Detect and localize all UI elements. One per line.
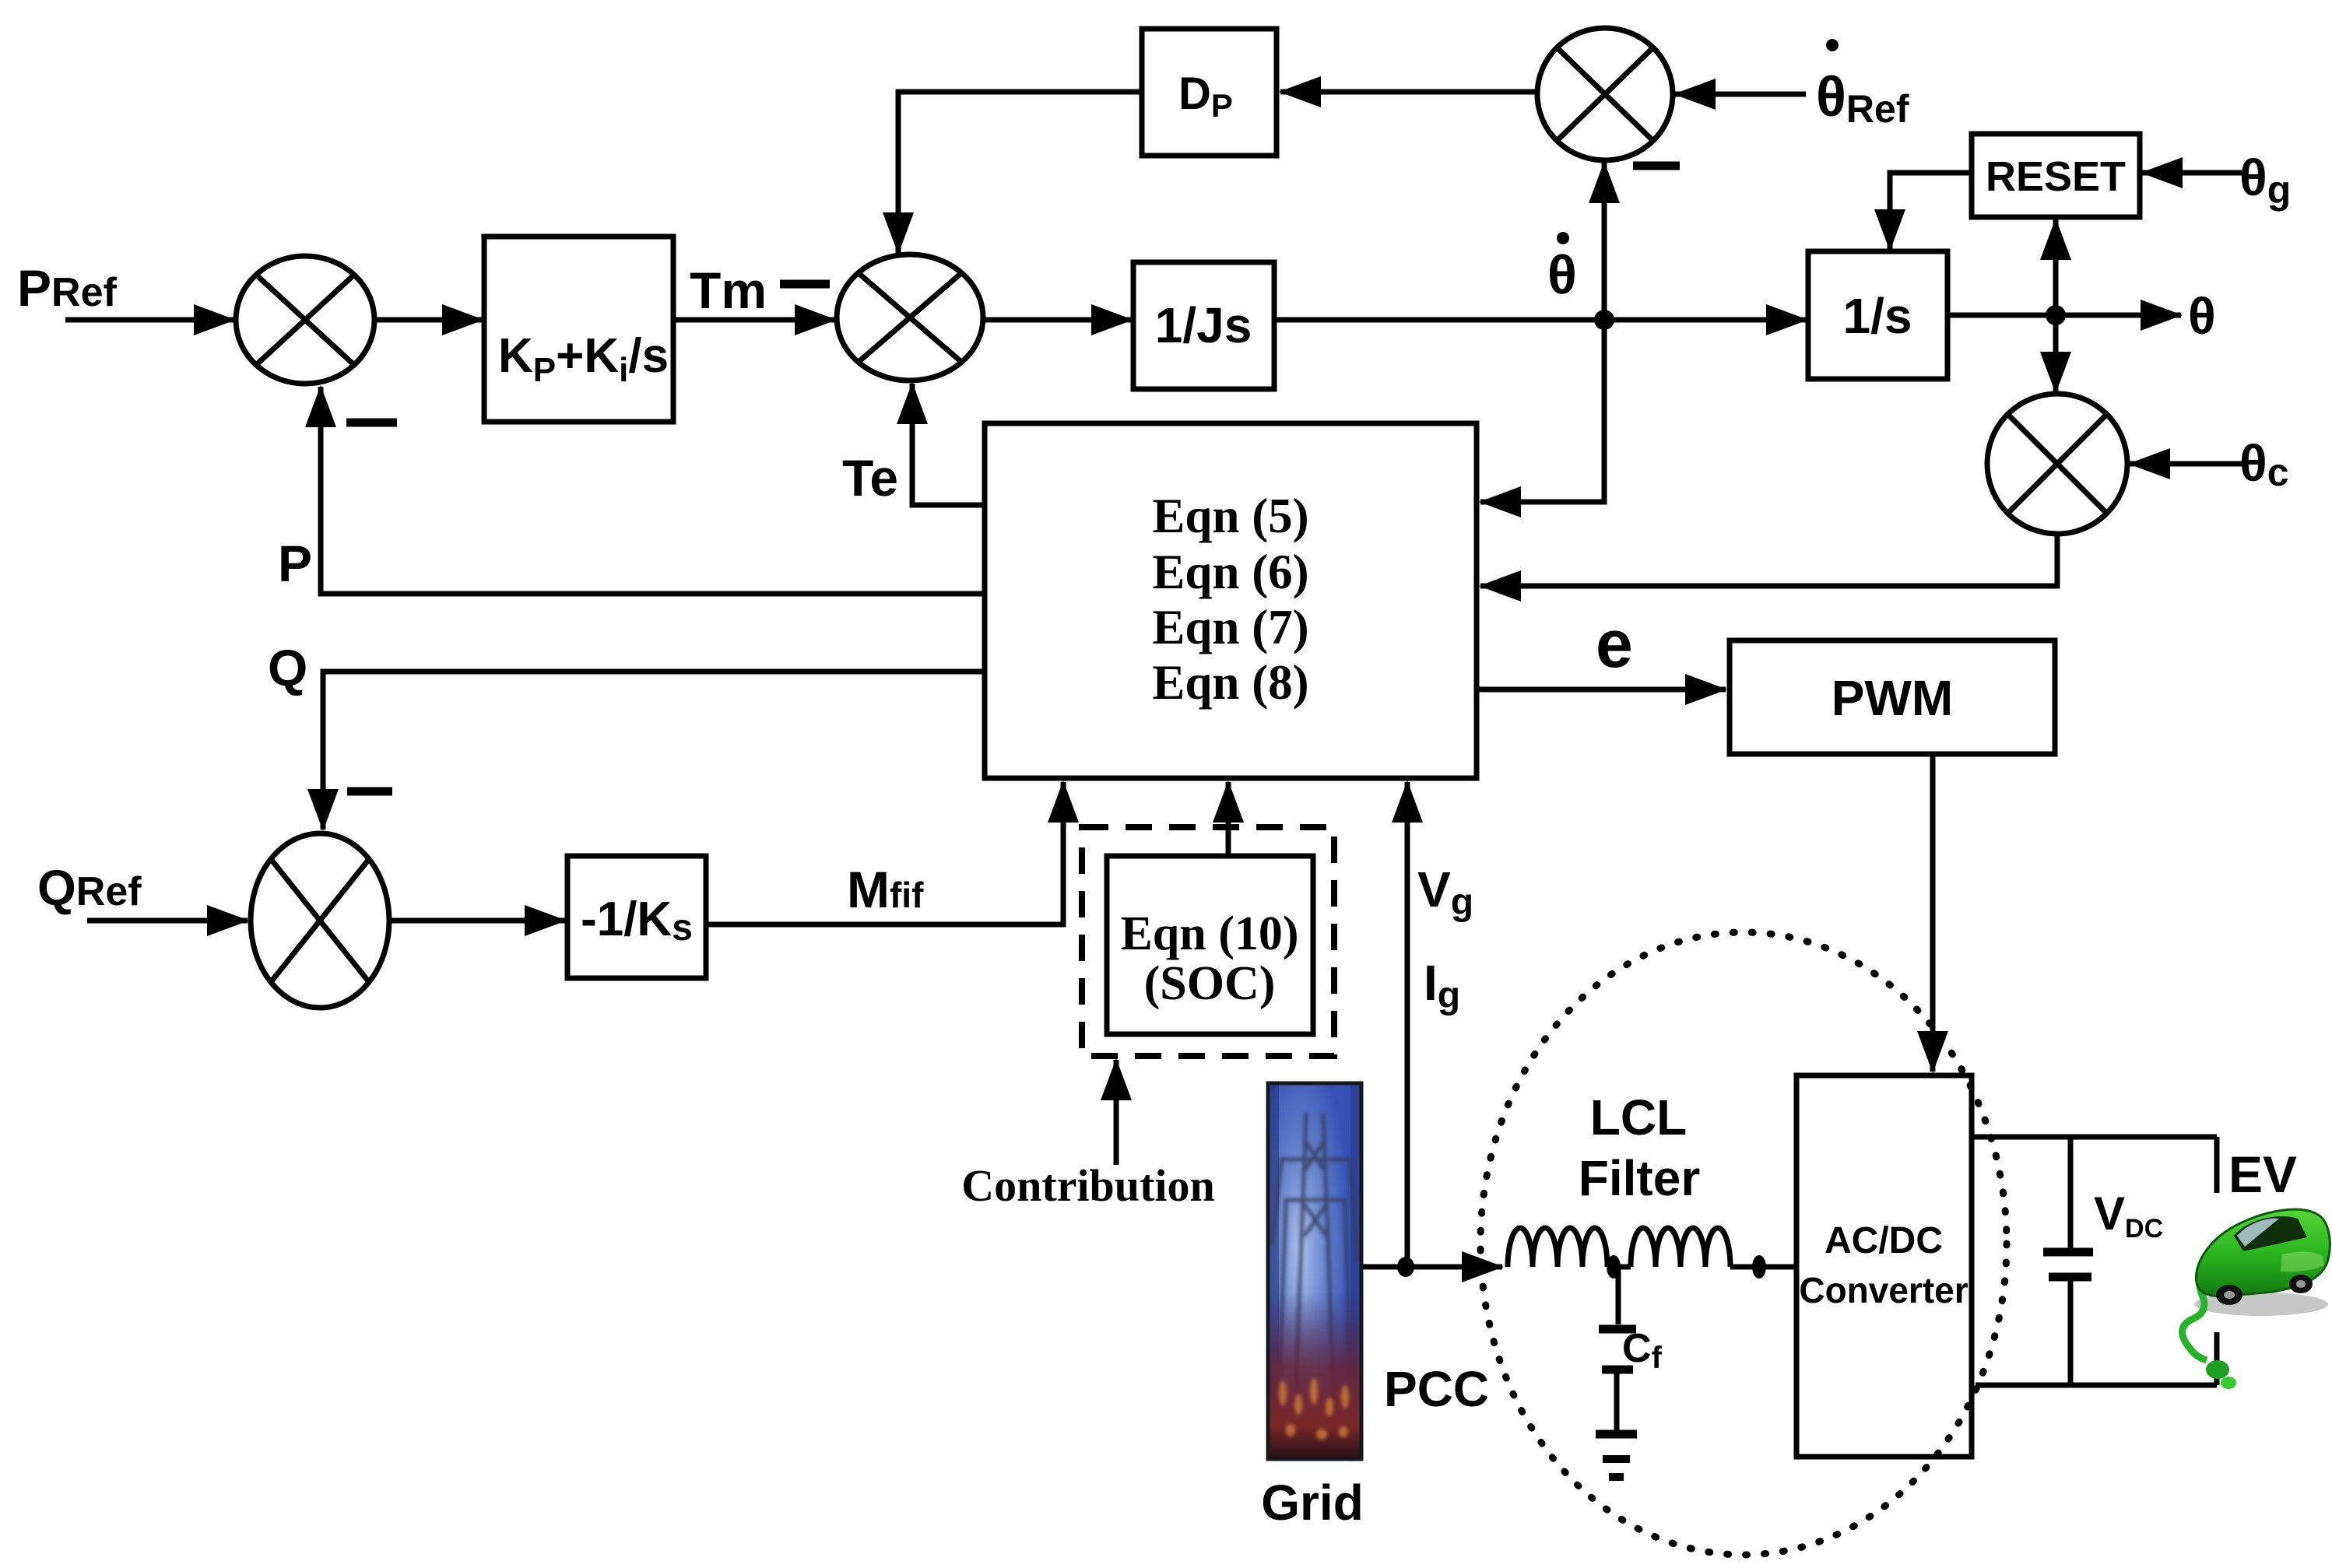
svg-text:LCL: LCL <box>1590 1089 1687 1145</box>
svg-text:Contribution: Contribution <box>961 1160 1215 1211</box>
svg-text:Eqn (6): Eqn (6) <box>1152 545 1308 599</box>
svg-text:1/Js: 1/Js <box>1155 297 1252 353</box>
svg-text:Tm: Tm <box>690 261 767 319</box>
svg-text:Eqn (8): Eqn (8) <box>1152 655 1308 710</box>
svg-text:PWM: PWM <box>1832 670 1953 726</box>
svg-text:PCC: PCC <box>1384 1361 1489 1417</box>
svg-text:e: e <box>1596 607 1633 682</box>
svg-text:KP+Ki/s: KP+Ki/s <box>498 329 669 389</box>
svg-text:AC/DC: AC/DC <box>1825 1220 1943 1261</box>
svg-text:Q: Q <box>268 639 307 696</box>
svg-text:RESET: RESET <box>1986 153 2126 200</box>
svg-text:1/s: 1/s <box>1843 288 1912 344</box>
svg-text:Converter: Converter <box>1799 1270 1968 1310</box>
svg-text:(SOC): (SOC) <box>1144 957 1276 1010</box>
svg-text:Grid: Grid <box>1261 1475 1364 1531</box>
svg-text:θ: θ <box>1547 244 1577 305</box>
svg-text:Te: Te <box>842 449 898 507</box>
svg-text:P: P <box>278 535 312 592</box>
svg-text:θ: θ <box>2188 287 2216 345</box>
svg-text:Eqn (10): Eqn (10) <box>1120 907 1298 960</box>
svg-text:EV: EV <box>2228 1145 2297 1203</box>
svg-text:Filter: Filter <box>1579 1150 1700 1206</box>
svg-text:Eqn (7): Eqn (7) <box>1152 600 1308 654</box>
svg-text:Eqn (5): Eqn (5) <box>1152 489 1308 543</box>
